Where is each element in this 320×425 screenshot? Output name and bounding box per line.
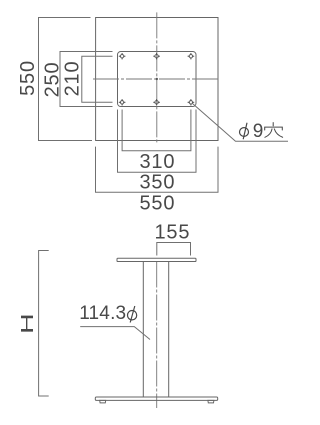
155 bracket [157,243,191,256]
550 bracket left [39,18,93,141]
left dimension brackets [39,18,113,141]
base plate (front) [95,397,217,400]
horizontal centerline plan [93,78,220,80]
H bracket [39,251,49,397]
leader line to phi9 hole [193,104,289,142]
250 bracket [60,52,113,107]
centerline front view [156,262,158,409]
hole TC [153,53,160,59]
kanji "ana" (hole) drawn as strokes [265,123,283,138]
phi symbol of "phi 9 hole" [240,123,249,140]
svg-text:H: H [17,313,37,334]
svg-text:114.3: 114.3 [79,303,126,324]
left foot [100,400,106,403]
svg-text:350: 350 [140,172,176,194]
svg-text:155: 155 [155,222,191,244]
svg-text:210: 210 [62,61,84,97]
leader of 114.3 phi [80,327,150,340]
svg-text:310: 310 [140,151,176,173]
310 bracket [122,110,191,151]
hole TL [119,53,126,59]
hole BL [119,99,126,105]
hole BC [153,99,160,105]
mounting plate 350x250 rounded [118,52,197,107]
hole TR [188,53,195,59]
base square 550x550 [96,18,218,141]
column left edge [142,262,144,398]
bottom dimension brackets [96,110,219,193]
vertical centerline plan [156,12,158,144]
210 bracket [82,56,113,102]
right foot [208,400,214,403]
350 bracket [118,110,197,173]
center mark [156,78,158,80]
hole BR [188,99,195,105]
550 bracket bottom [96,147,219,193]
column right edge [168,262,170,398]
svg-text:550: 550 [140,193,176,215]
bolt holes phi9 (circle + cross ticks) [119,53,194,106]
svg-text:250: 250 [42,62,64,98]
top mounting plate (front) [117,258,196,261]
svg-text:550: 550 [17,60,39,96]
svg-text:9: 9 [253,121,264,142]
